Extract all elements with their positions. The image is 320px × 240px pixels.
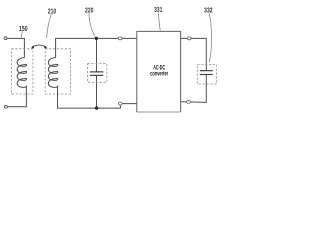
capacitor C2 (332) plates [200, 71, 213, 75]
svg-text:150: 150 [19, 24, 28, 33]
wire: T1 to primary coil top [7, 38, 24, 57]
connector on bottom output wire [187, 100, 191, 103]
leader line for 220 [89, 13, 95, 36]
dashed box around secondary coil [45, 49, 70, 94]
leader line for 210 [47, 14, 52, 38]
leader line for 332 [209, 13, 211, 62]
connector on top output wire [187, 37, 191, 40]
junction node bottom (220/bus) [95, 106, 98, 109]
leader line for 331 [158, 13, 160, 30]
capacitor C1 bottom lead [96, 76, 98, 108]
dashed box around capacitor 332 [197, 64, 216, 84]
inductor L1 (primary winding, 150 side) [17, 58, 27, 88]
wire: secondary top to AC-DC converter (top bus) [56, 38, 137, 57]
input terminal T1 (top-left) [4, 37, 7, 40]
connector on top input bus [118, 37, 122, 40]
input terminal T2 (bottom-left) [5, 105, 8, 108]
connector on bottom input bus [119, 102, 123, 105]
svg-text:332: 332 [204, 5, 213, 14]
wire: converter output top [181, 38, 207, 70]
capacitor C1 plates [90, 72, 103, 76]
arrowhead left [31, 46, 34, 49]
inductor L2 (secondary winding, 210) [48, 58, 58, 88]
AC-DC converter U1 (331) box [137, 31, 181, 112]
coupling arrow between windings [33, 45, 46, 47]
dashed box around capacitor 220 [88, 64, 107, 83]
arrowhead right [44, 46, 47, 49]
leader line for 150 [21, 31, 22, 37]
capacitor C1 (220) top lead [96, 38, 98, 71]
box bottom edge (faint) [137, 111, 181, 113]
wire: secondary bottom bus with jog [58, 86, 137, 109]
wire: converter output bottom [181, 75, 207, 103]
svg-text:converter: converter [150, 71, 168, 77]
svg-text:210: 210 [48, 7, 57, 16]
junction node top (220/bus) [95, 37, 98, 40]
dashed box around primary coil [11, 49, 33, 94]
svg-text:331: 331 [154, 5, 163, 14]
svg-text:220: 220 [85, 5, 94, 14]
wire: primary coil bottom to T2 [8, 86, 27, 107]
